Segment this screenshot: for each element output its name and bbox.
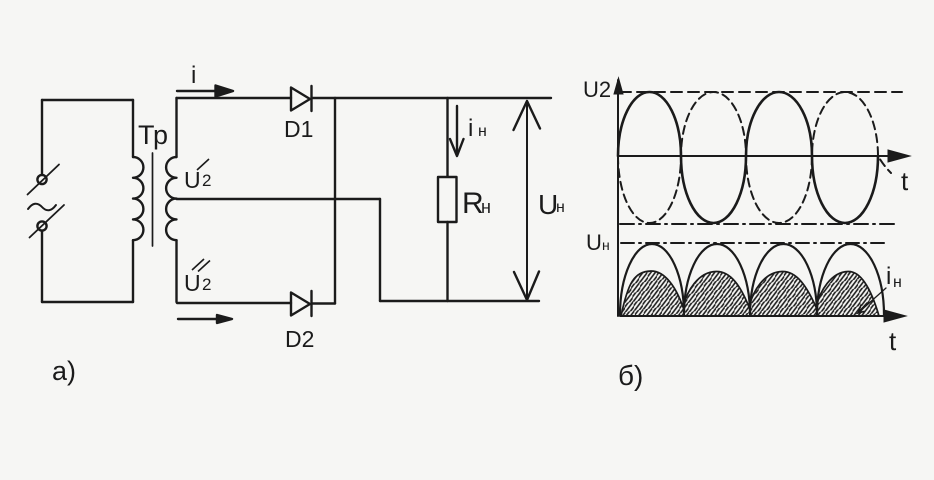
current arrow iH (450, 106, 464, 156)
label RH (462, 187, 491, 220)
diode D1 (291, 86, 312, 111)
wire load bottom (446, 222, 448, 301)
iH leader line (858, 288, 886, 313)
svg-text:i: i (886, 263, 891, 290)
terminal plug bottom (37, 221, 46, 230)
current arrow i (177, 86, 233, 97)
svg-text:D1: D1 (284, 116, 313, 142)
wire bottom to load (380, 300, 539, 302)
wire primary loop right upper (132, 100, 134, 157)
svg-text:t: t (889, 326, 897, 356)
diode D2 (291, 291, 312, 316)
wire primary loop top (42, 99, 133, 101)
wire secondary top lead (175, 98, 177, 157)
svg-text:2: 2 (202, 275, 211, 294)
AC source tilde (28, 204, 56, 211)
dash-dot bottom amplitude line (620, 223, 898, 225)
terminal plug top (37, 175, 46, 184)
svg-text:2: 2 (202, 171, 211, 190)
svg-text:н: н (481, 197, 491, 217)
axis U2 vertical (617, 80, 619, 316)
dashed top amplitude line (620, 91, 902, 93)
voltage arrow UH (514, 101, 541, 300)
svg-text:н: н (556, 199, 565, 216)
svg-text:Тр: Тр (138, 120, 168, 150)
label U''2 (184, 259, 211, 296)
svg-text:D2: D2 (285, 326, 314, 352)
svg-text:U: U (184, 167, 201, 193)
wire cathode junction vertical (334, 98, 336, 304)
svg-text:а): а) (52, 356, 76, 386)
svg-text:U: U (586, 230, 602, 255)
dash-dot UH level line (621, 242, 886, 244)
wire D1 cathode to right end (312, 97, 552, 99)
resistor RH body (438, 177, 457, 222)
transformer T1 secondary winding (166, 157, 176, 240)
label U'2 (184, 159, 211, 193)
svg-text:н: н (602, 237, 610, 253)
current arrow lower winding (178, 315, 232, 323)
svg-text:б): б) (618, 360, 643, 391)
wire secondary top to D1 (177, 97, 292, 99)
sine U'2 solid (618, 92, 878, 223)
wire D2 cathode to junction (312, 302, 336, 304)
hatched current iH area (621, 271, 879, 316)
wire secondary bottom lead (177, 240, 292, 303)
wire center tap (177, 198, 381, 200)
svg-text:t: t (901, 166, 909, 196)
wire center tap step down (379, 199, 381, 301)
svg-text:i: i (191, 62, 196, 89)
wire load top (446, 98, 448, 177)
wire primary loop right lower (132, 240, 134, 302)
wire primary loop left upper (41, 100, 43, 175)
wire primary loop left lower (41, 231, 43, 302)
axis t lower (620, 315, 890, 317)
axis t upper (618, 155, 892, 157)
svg-text:U2: U2 (583, 77, 611, 102)
label UH axis (586, 230, 610, 255)
transformer T1 core (152, 153, 154, 246)
svg-text:н: н (478, 123, 487, 140)
label iH load (468, 115, 487, 142)
label iH waveform (886, 263, 902, 291)
label UH circuit (538, 189, 565, 220)
sine U''2 dashed (618, 92, 891, 223)
wire primary loop bottom (42, 301, 133, 303)
transformer T1 primary winding (133, 157, 143, 240)
rectified voltage humps (620, 244, 884, 315)
svg-text:U: U (184, 270, 201, 296)
svg-text:i: i (468, 115, 473, 142)
svg-text:н: н (893, 274, 902, 291)
